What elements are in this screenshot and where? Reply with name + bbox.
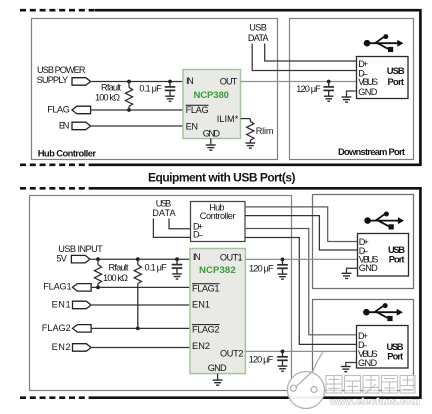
capacitor C1 0.1uF with ground xyxy=(165,82,176,102)
node junction 120uF port1 xyxy=(281,258,285,262)
capacitor 120uF (top) with ground xyxy=(323,82,334,102)
svg-text:Port: Port xyxy=(388,76,405,87)
node junction Rfault bottom xyxy=(127,108,131,112)
ground at port 2 xyxy=(341,367,351,372)
svg-text:Rfault: Rfault xyxy=(109,263,129,273)
wire GND pin to ground (top port) xyxy=(347,91,358,97)
wire hub to port1 D- xyxy=(245,216,357,250)
svg-text:Hub Controller: Hub Controller xyxy=(38,148,97,159)
svg-text:GND: GND xyxy=(359,263,378,273)
node junction Rfault2 bottom xyxy=(136,327,140,331)
svg-text:SUPPLY: SUPPLY xyxy=(37,75,69,85)
FLAG2 output tag xyxy=(73,325,92,333)
svg-text:FLAG: FLAG xyxy=(47,105,70,115)
wire GND pin to ground (port 1) xyxy=(347,268,358,273)
wire FLAG xyxy=(91,109,183,111)
svg-text:EN: EN xyxy=(186,122,198,132)
svg-text:5 V: 5 V xyxy=(56,254,67,264)
outer dashed border of upstream hub equipment xyxy=(20,9,421,166)
svg-text:FLAG2: FLAG2 xyxy=(192,325,220,335)
svg-text:GND: GND xyxy=(203,129,221,139)
svg-text:VBUS: VBUS xyxy=(358,77,378,87)
node junction 120uF port2 xyxy=(281,350,285,354)
svg-text:NCP380: NCP380 xyxy=(194,90,230,101)
svg-text:USB: USB xyxy=(156,198,172,208)
svg-text:IN: IN xyxy=(193,252,201,262)
USB Port name (port 2) xyxy=(387,341,404,361)
port 2 container box xyxy=(313,300,414,391)
wire FLAG1 xyxy=(92,286,190,288)
svg-text:ILIM*: ILIM* xyxy=(217,114,239,124)
node junction Rfault top xyxy=(127,80,131,84)
Hub Controller block labels xyxy=(193,202,236,239)
FLAG1 output tag xyxy=(73,284,92,292)
capacitor 0.1uF (bottom) with ground xyxy=(172,259,183,279)
node junction Rfault1 bottom xyxy=(96,286,100,290)
wire hub to port2 D+ xyxy=(245,229,357,335)
svg-text:EN1: EN1 xyxy=(192,300,210,310)
svg-text:D–: D– xyxy=(193,229,204,239)
USB Port box (port 2) xyxy=(357,326,409,369)
NCP382 pin labels xyxy=(192,252,244,373)
IC U2 NCP382 body xyxy=(190,249,246,374)
watermark chinese characters xyxy=(326,376,415,394)
node junction 120uF xyxy=(327,80,331,84)
EN1 input tag xyxy=(73,301,92,309)
node junction Rfault2 top xyxy=(136,257,140,261)
svg-text:100 kΩ: 100 kΩ xyxy=(103,273,128,283)
svg-text:100 kΩ: 100 kΩ xyxy=(95,93,120,103)
svg-text:www.elecfans.com: www.elecfans.com xyxy=(329,397,420,408)
svg-text:120 μF: 120 μF xyxy=(249,264,274,274)
svg-text:Port: Port xyxy=(389,253,405,264)
NCP380 pin labels xyxy=(186,76,239,138)
wire supply to IN pin xyxy=(91,81,183,83)
wire OUT2 to port2 VBUS xyxy=(245,350,356,352)
svg-text:0.1 μF: 0.1 μF xyxy=(139,84,162,94)
Hub Controller block (bottom) xyxy=(191,202,246,242)
wire EN2 xyxy=(92,347,190,349)
svg-text:EN1: EN1 xyxy=(52,300,71,310)
USB DATA label (top) xyxy=(248,23,270,44)
EN input tag xyxy=(72,122,91,130)
svg-text:120 μF: 120 μF xyxy=(249,354,274,364)
wire USB DATA to D+ xyxy=(265,44,358,62)
USB symbol (port 2) xyxy=(363,303,403,321)
svg-text:D+: D+ xyxy=(358,59,368,69)
svg-text:NCP382: NCP382 xyxy=(199,265,236,276)
USB POWER SUPPLY input tag xyxy=(72,78,91,86)
svg-text:GND: GND xyxy=(358,87,377,97)
ground below NCP380 GND pin xyxy=(206,139,216,151)
wire hub to port1 D+ xyxy=(245,207,357,242)
svg-text:FLAG1: FLAG1 xyxy=(192,284,220,294)
ground below Rlim xyxy=(245,143,255,148)
svg-text:Downstream Port: Downstream Port xyxy=(338,146,405,157)
USB DATA label (bottom) xyxy=(152,198,176,218)
svg-text:Rlim: Rlim xyxy=(256,126,274,136)
USB Port box (port 1) xyxy=(358,234,409,277)
svg-text:DATA: DATA xyxy=(248,33,270,43)
equipment inner box xyxy=(30,196,292,391)
Rfault value label xyxy=(95,82,121,102)
USB POWER SUPPLY label xyxy=(37,65,86,85)
5V input tag xyxy=(71,255,90,263)
svg-text:EN2: EN2 xyxy=(52,342,71,352)
wire OUT1 to port1 VBUS xyxy=(245,258,357,260)
wire USB DATA to hub D- xyxy=(153,219,190,238)
wire 5V to IN pin xyxy=(91,258,190,260)
USB symbol (top port) xyxy=(364,34,404,52)
svg-text:EN2: EN2 xyxy=(192,341,210,351)
resistor Rlim xyxy=(247,119,254,143)
wire GND pin to ground (port 2) xyxy=(346,363,357,367)
svg-text:GND: GND xyxy=(208,363,227,373)
svg-text:OUT: OUT xyxy=(220,76,238,86)
svg-text:OUT1: OUT1 xyxy=(220,252,243,262)
USB Port box (top) xyxy=(357,57,409,99)
svg-text:Controller: Controller xyxy=(200,211,236,221)
wire hub to port2 D- xyxy=(245,238,357,345)
USB symbol (port 1) xyxy=(364,212,404,230)
node junction capacitor top xyxy=(168,80,172,84)
resistor Rfault2 xyxy=(134,259,141,328)
svg-text:USB: USB xyxy=(387,65,405,76)
svg-text:GND: GND xyxy=(358,358,377,368)
wire USB DATA to D- xyxy=(252,44,357,71)
wire ILIM to Rlim xyxy=(241,118,251,120)
svg-text:0.1 μF: 0.1 μF xyxy=(145,263,168,273)
wire OUT to VBUS xyxy=(241,81,358,83)
svg-text:USB: USB xyxy=(249,23,267,33)
resistor Rfault (top section) xyxy=(125,82,132,111)
Rfault value label (bottom) xyxy=(103,263,129,283)
port 1 container box xyxy=(313,195,414,289)
resistor Rfault1 xyxy=(94,259,101,287)
svg-text:120 μF: 120 μF xyxy=(296,84,321,94)
ground at top USB port xyxy=(342,97,352,102)
USB Port name (top) xyxy=(387,65,405,87)
svg-text:FLAG: FLAG xyxy=(186,105,209,115)
Downstream Port box xyxy=(290,19,414,160)
svg-text:EN: EN xyxy=(59,121,70,131)
svg-text:Rfault: Rfault xyxy=(101,82,121,92)
USB Port pin labels (port 2) xyxy=(358,331,378,368)
USB Port pin labels (port 1) xyxy=(359,237,379,273)
svg-text:FLAG1: FLAG1 xyxy=(43,282,71,292)
svg-text:OUT2: OUT2 xyxy=(220,349,244,359)
svg-text:IN: IN xyxy=(186,76,194,86)
svg-text:Port: Port xyxy=(387,350,403,361)
node junction Rfault1 top xyxy=(96,257,100,261)
outer dashed border of equipment with USB ports xyxy=(20,187,421,399)
watermark logo circle xyxy=(288,352,325,409)
IC U1 NCP380 body xyxy=(183,70,241,139)
capacitor 120uF (port1) with ground xyxy=(277,259,288,279)
wire USB DATA to hub D+ xyxy=(169,219,190,229)
svg-text:FLAG2: FLAG2 xyxy=(42,323,71,333)
wire FLAG2 xyxy=(92,327,190,329)
ground at port 1 xyxy=(342,273,352,278)
USB Port name (port 1) xyxy=(388,244,405,264)
FLAG output tag xyxy=(72,106,91,114)
USB INPUT label xyxy=(56,244,103,263)
capacitor 120uF (port2) with ground xyxy=(277,351,288,371)
svg-text:DATA: DATA xyxy=(152,208,176,218)
svg-text:Equipment with USB Port(s): Equipment with USB Port(s) xyxy=(148,171,296,185)
node junction 0.1uF top xyxy=(175,257,179,261)
wire EN xyxy=(91,125,183,127)
USB Port pin labels (top) xyxy=(358,59,378,97)
wire EN1 xyxy=(92,304,190,306)
Hub Controller box (top section) xyxy=(32,19,278,160)
svg-text:USB POWER: USB POWER xyxy=(37,65,86,75)
ground below NCP382 GND pin xyxy=(213,374,223,386)
EN2 input tag xyxy=(73,344,92,352)
